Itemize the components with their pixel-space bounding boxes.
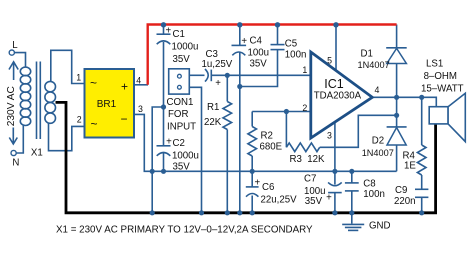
svg-text:+: + <box>326 192 332 203</box>
svg-text:35V: 35V <box>250 58 268 69</box>
svg-text:+: + <box>166 137 172 148</box>
svg-text:C9: C9 <box>395 185 407 196</box>
svg-text:C5: C5 <box>285 39 297 50</box>
svg-text:D2: D2 <box>372 135 384 146</box>
svg-text:C6: C6 <box>262 182 274 193</box>
svg-text:+: + <box>215 78 221 89</box>
svg-text:−: − <box>120 112 127 126</box>
svg-text:IC1: IC1 <box>324 77 344 91</box>
svg-text:L: L <box>12 40 18 51</box>
svg-text:N: N <box>12 157 19 168</box>
svg-text:+: + <box>121 80 128 94</box>
svg-text:R1: R1 <box>207 102 219 113</box>
svg-text:22K: 22K <box>204 117 222 128</box>
svg-text:X1: X1 <box>31 147 43 158</box>
svg-text:1N4007: 1N4007 <box>362 148 394 158</box>
svg-text:4: 4 <box>375 85 380 95</box>
svg-text:3: 3 <box>138 104 143 114</box>
svg-text:680E: 680E <box>260 142 283 153</box>
svg-text:R3 12K: R3 12K <box>290 154 326 165</box>
svg-text:+: + <box>254 178 260 189</box>
svg-text:3: 3 <box>327 131 332 141</box>
svg-text:X1 = 230V AC PRIMARY TO 12V–0–: X1 = 230V AC PRIMARY TO 12V–0–12V,2A SEC… <box>56 225 313 236</box>
svg-text:15–WATT: 15–WATT <box>421 83 464 94</box>
svg-text:~: ~ <box>90 117 97 131</box>
svg-text:8–OHM: 8–OHM <box>424 71 457 82</box>
svg-text:GND: GND <box>369 220 391 231</box>
svg-text:1E: 1E <box>404 160 416 171</box>
svg-text:1: 1 <box>302 65 307 75</box>
svg-text:35V: 35V <box>173 54 191 65</box>
svg-text:5: 5 <box>327 56 332 66</box>
svg-text:220n: 220n <box>394 196 416 207</box>
svg-text:100n: 100n <box>363 189 385 200</box>
svg-text:LS1: LS1 <box>426 59 443 70</box>
svg-text:35V: 35V <box>173 162 191 173</box>
svg-text:1N4007: 1N4007 <box>358 60 390 70</box>
svg-text:4: 4 <box>136 76 141 86</box>
svg-text:D1: D1 <box>361 49 373 60</box>
svg-text:230V AC: 230V AC <box>6 86 17 126</box>
svg-text:C1: C1 <box>173 29 185 40</box>
svg-text:~: ~ <box>90 76 97 90</box>
svg-text:1000u: 1000u <box>172 42 199 53</box>
svg-text:1000u: 1000u <box>172 150 199 161</box>
svg-text:CON1: CON1 <box>167 97 194 108</box>
svg-text:C4: C4 <box>250 36 263 47</box>
svg-text:1: 1 <box>76 73 81 83</box>
svg-text:1u,25V: 1u,25V <box>202 59 233 70</box>
svg-text:22u,25V: 22u,25V <box>261 195 298 206</box>
svg-text:INPUT: INPUT <box>167 121 196 132</box>
svg-text:100u: 100u <box>248 47 270 58</box>
svg-text:2: 2 <box>302 103 307 113</box>
svg-text:R2: R2 <box>261 131 273 142</box>
svg-text:FOR: FOR <box>168 109 188 120</box>
svg-text:35V: 35V <box>305 196 323 207</box>
svg-text:C2: C2 <box>173 138 185 149</box>
svg-text:TDA2030A: TDA2030A <box>314 90 362 101</box>
svg-text:C7: C7 <box>304 174 316 185</box>
svg-text:+: + <box>241 36 247 47</box>
svg-text:BR1: BR1 <box>97 99 117 110</box>
svg-text:+: + <box>165 26 171 37</box>
svg-text:2: 2 <box>77 114 82 124</box>
svg-text:100n: 100n <box>285 49 307 60</box>
